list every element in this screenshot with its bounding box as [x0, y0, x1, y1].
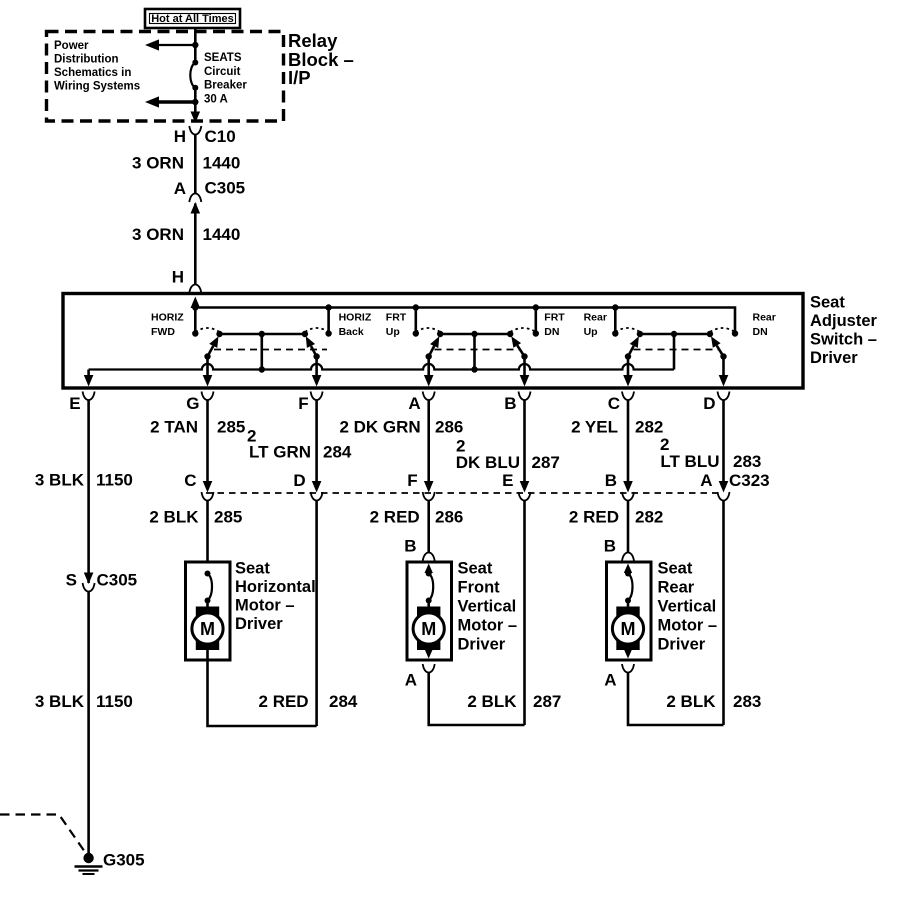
wire A down to C323: [427, 400, 430, 481]
switch arm Rear DN (D): [717, 346, 724, 357]
svg-text:Vertical: Vertical: [458, 598, 517, 616]
wire E down to C305: [87, 400, 90, 583]
motor M2 Seat Front Vertical Motor - Driver: [407, 562, 452, 660]
wire A to motor 2: [427, 501, 430, 553]
svg-text:2 RED: 2 RED: [259, 692, 309, 711]
svg-text:2 DK GRN: 2 DK GRN: [339, 418, 420, 437]
svg-text:DK BLU: DK BLU: [456, 453, 520, 472]
svg-text:I/P: I/P: [288, 67, 311, 88]
wire B down: [523, 501, 526, 726]
svg-text:Breaker: Breaker: [204, 80, 247, 92]
svg-text:282: 282: [635, 418, 663, 437]
wire from hot box into relay block: [194, 28, 197, 46]
switch arm FRT DN (B): [517, 345, 524, 356]
svg-text:1150: 1150: [96, 692, 133, 711]
svg-text:2 TAN: 2 TAN: [150, 418, 198, 437]
motor M3 connector top: [622, 553, 634, 562]
coupling dashed pair 1: [214, 349, 327, 351]
connector C305 on E wire (S): [84, 573, 94, 585]
svg-text:C: C: [608, 394, 620, 413]
svg-text:3 BLK: 3 BLK: [35, 471, 85, 490]
svg-text:F: F: [407, 471, 417, 490]
svg-text:D: D: [293, 471, 305, 490]
svg-text:A: A: [408, 394, 420, 413]
svg-text:Wiring Systems: Wiring Systems: [54, 81, 140, 93]
output E drop: [87, 370, 90, 378]
wire F down to C323: [315, 400, 318, 481]
wire 3 ORN 1440 lower: [194, 204, 197, 285]
link bar pair 1: [220, 333, 305, 336]
svg-text:A: A: [604, 671, 616, 690]
svg-text:1440: 1440: [203, 225, 241, 244]
motor M1 return loop: [208, 660, 317, 726]
dashed wire from other circuit to G305: [0, 815, 86, 854]
svg-text:Up: Up: [386, 326, 400, 338]
svg-text:Rear: Rear: [584, 312, 607, 324]
svg-text:1440: 1440: [203, 154, 241, 173]
svg-text:3 BLK: 3 BLK: [35, 692, 85, 711]
wire G to motor 1: [206, 501, 209, 563]
switch arm HORIZ Back (F): [311, 346, 317, 357]
svg-text:M: M: [421, 619, 436, 639]
bus junction dots: [192, 304, 198, 310]
arrow to power distribution (bottom): [157, 100, 195, 103]
svg-text:Adjuster: Adjuster: [810, 312, 878, 330]
svg-text:Circuit: Circuit: [204, 66, 241, 78]
wire D down: [722, 501, 725, 726]
connector C10 male arrow: [194, 102, 197, 113]
svg-text:Schematics in: Schematics in: [54, 67, 131, 79]
svg-text:286: 286: [435, 508, 463, 527]
svg-text:287: 287: [533, 692, 561, 711]
svg-text:30 A: 30 A: [204, 93, 228, 105]
throw arc Rear Up: [615, 328, 640, 332]
svg-text:C323: C323: [729, 471, 770, 490]
output A drop: [427, 357, 430, 378]
svg-text:Seat: Seat: [235, 560, 270, 578]
svg-text:2 BLK: 2 BLK: [149, 508, 199, 527]
svg-text:Switch –: Switch –: [810, 331, 877, 349]
link bar drop pair 2: [473, 334, 476, 370]
svg-text:D: D: [703, 394, 715, 413]
seat adjuster switch box: [63, 294, 803, 389]
svg-text:HORIZ: HORIZ: [339, 312, 372, 324]
svg-text:Seat: Seat: [658, 560, 693, 578]
motor M2 connector bottom (A): [423, 664, 435, 673]
svg-text:G: G: [186, 394, 199, 413]
link bar pair 3: [640, 333, 710, 336]
throw arc HORIZ FWD: [195, 328, 219, 332]
wire G down to C323: [206, 400, 209, 481]
svg-text:H: H: [172, 268, 184, 287]
throw arc FRT Up: [416, 328, 440, 332]
svg-text:FRT: FRT: [386, 312, 407, 324]
output B drop: [523, 357, 526, 378]
svg-text:C305: C305: [205, 179, 246, 198]
motor M3 connector bottom (A): [622, 664, 634, 673]
ground G305: [83, 853, 93, 863]
svg-text:2 BLK: 2 BLK: [666, 692, 716, 711]
svg-text:282: 282: [635, 508, 663, 527]
pin C fork below box: [622, 392, 634, 401]
svg-text:B: B: [604, 537, 616, 556]
svg-text:E: E: [69, 394, 80, 413]
pin D fork below box: [718, 392, 730, 401]
svg-text:3 ORN: 3 ORN: [132, 225, 184, 244]
label box: Hot at All Times: [145, 9, 240, 28]
svg-text:HORIZ: HORIZ: [151, 312, 184, 324]
svg-text:B: B: [404, 537, 416, 556]
svg-text:Vertical: Vertical: [658, 598, 717, 616]
switch arm FRT Up (A): [429, 346, 435, 357]
link bar drop pair 3 (corner to lower bus): [673, 334, 676, 370]
C323 fork pin E: [519, 492, 531, 501]
svg-text:Seat: Seat: [810, 294, 845, 312]
top bus: [195, 308, 735, 334]
svg-text:E: E: [502, 471, 513, 490]
svg-text:SEATS: SEATS: [204, 52, 242, 64]
link bar drop pair 1: [260, 334, 263, 370]
svg-text:Rear: Rear: [658, 579, 695, 597]
svg-text:Back: Back: [339, 326, 364, 338]
wire F down: [315, 501, 318, 727]
coupling dashed pair 2: [435, 349, 520, 351]
svg-text:H: H: [174, 127, 186, 146]
svg-text:B: B: [605, 471, 617, 490]
C323 fork pin C: [202, 492, 214, 501]
svg-text:Rear: Rear: [753, 312, 776, 324]
C323 fork pin A: [718, 492, 730, 501]
relay block dashed box: [47, 32, 284, 122]
svg-text:283: 283: [733, 452, 761, 471]
throw arc Rear DN: [710, 328, 735, 332]
svg-text:Motor –: Motor –: [658, 617, 718, 635]
svg-text:Power: Power: [54, 40, 89, 52]
svg-text:Distribution: Distribution: [54, 53, 119, 65]
arrow to power distribution (top): [157, 44, 195, 46]
motor M1 Seat Horizontal Motor - Driver: [186, 562, 231, 660]
motor M3 Seat Rear Vertical Motor - Driver: [607, 562, 652, 660]
svg-text:284: 284: [323, 443, 352, 462]
svg-text:G305: G305: [103, 851, 145, 870]
svg-text:Seat: Seat: [458, 560, 493, 578]
svg-text:A: A: [405, 671, 417, 690]
svg-text:F: F: [298, 394, 308, 413]
svg-text:283: 283: [733, 692, 761, 711]
svg-text:C: C: [184, 471, 196, 490]
svg-text:Motor –: Motor –: [458, 617, 518, 635]
connector C10 female fork: [189, 126, 201, 135]
output G drop: [206, 357, 209, 378]
output D drop: [722, 357, 725, 378]
wire E to ground: [87, 592, 90, 856]
svg-text:Driver: Driver: [235, 615, 283, 633]
svg-text:FRT: FRT: [544, 312, 565, 324]
svg-text:Driver: Driver: [658, 636, 706, 654]
wire B down to C323: [523, 400, 526, 481]
svg-text:Front: Front: [458, 579, 501, 597]
wire C down to C323: [627, 400, 630, 481]
coupling dashed pair 3: [634, 349, 719, 351]
svg-text:3 ORN: 3 ORN: [132, 154, 184, 173]
output F drop: [315, 357, 318, 378]
switch arm Rear Up (C): [628, 346, 634, 357]
svg-text:C305: C305: [97, 571, 138, 590]
svg-text:M: M: [621, 619, 636, 639]
throw arc HORIZ Back: [305, 328, 329, 332]
svg-text:285: 285: [214, 508, 242, 527]
svg-text:LT GRN: LT GRN: [249, 443, 311, 462]
pin E fork below box: [83, 392, 95, 401]
connector C323 dashed line: [206, 492, 724, 494]
svg-text:C10: C10: [205, 127, 236, 146]
svg-text:Driver: Driver: [458, 636, 506, 654]
link bar pair 2: [440, 333, 510, 336]
svg-text:A: A: [700, 471, 712, 490]
svg-text:Horizontal: Horizontal: [235, 578, 316, 596]
pin G fork below box: [202, 392, 214, 401]
circuit breaker SEATS 30A: [194, 45, 197, 63]
svg-text:M: M: [200, 619, 215, 639]
wire D down to C323: [722, 400, 725, 481]
svg-text:1150: 1150: [96, 471, 133, 490]
svg-text:Hot at All Times: Hot at All Times: [151, 13, 234, 25]
wire 3 ORN 1440 upper: [194, 135, 197, 194]
svg-text:LT BLU: LT BLU: [660, 452, 719, 471]
pin F fork below box: [311, 392, 323, 401]
C323 fork pin F: [423, 492, 435, 501]
connector into switch box (H): [189, 285, 201, 294]
svg-text:Driver: Driver: [810, 349, 858, 367]
connector C305 (A): [189, 194, 201, 203]
C323 fork pin D: [311, 492, 323, 501]
svg-text:284: 284: [329, 692, 358, 711]
fixed contact dots: [192, 330, 198, 336]
svg-text:286: 286: [435, 418, 463, 437]
svg-text:285: 285: [217, 418, 245, 437]
svg-text:Up: Up: [584, 326, 598, 338]
switch feed stubs: [194, 308, 197, 334]
motor M2 return loop: [429, 673, 525, 726]
svg-text:DN: DN: [544, 326, 559, 338]
svg-text:DN: DN: [753, 326, 768, 338]
svg-text:FWD: FWD: [151, 326, 175, 338]
pin A fork below box: [423, 392, 435, 401]
pin B fork below box: [519, 392, 531, 401]
motor M3 return loop: [628, 673, 724, 726]
output C drop: [627, 357, 630, 378]
svg-text:2 BLK: 2 BLK: [467, 692, 517, 711]
throw arc FRT DN: [510, 328, 536, 332]
lower bus with jump-overs: [89, 364, 674, 370]
svg-text:S: S: [66, 571, 77, 590]
svg-text:B: B: [504, 394, 516, 413]
svg-text:287: 287: [532, 453, 560, 472]
svg-text:2 RED: 2 RED: [569, 508, 619, 527]
svg-text:A: A: [174, 179, 186, 198]
C323 fork pin B: [622, 492, 634, 501]
switch arm HORIZ FWD (G): [208, 346, 214, 357]
svg-text:2 YEL: 2 YEL: [571, 418, 618, 437]
motor M2 connector top: [423, 553, 435, 562]
svg-text:Motor –: Motor –: [235, 597, 295, 615]
svg-text:2 RED: 2 RED: [370, 508, 420, 527]
wire C to motor 3: [627, 501, 630, 553]
